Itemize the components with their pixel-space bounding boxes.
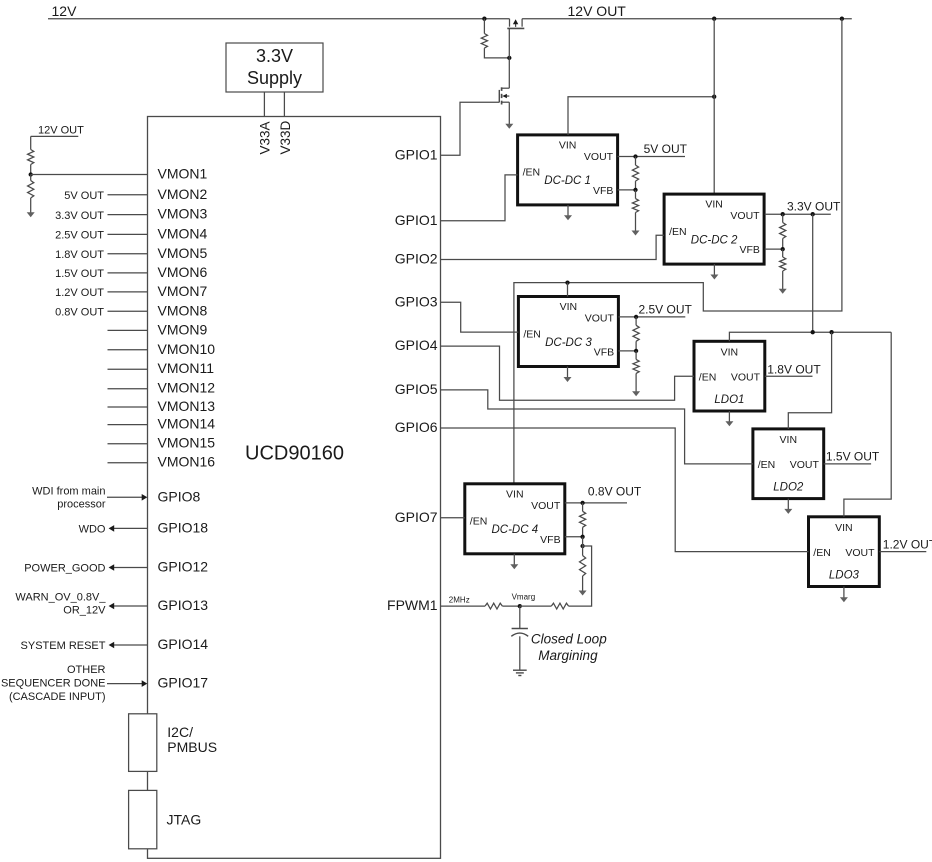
transistor Q1 P-FET high-side	[507, 19, 524, 58]
ground arrow DC-DC1	[564, 205, 572, 220]
node DC-DC4 margin tap	[580, 544, 584, 548]
pin label VMON2	[158, 186, 208, 202]
wire 3.3V down to LDO rail	[812, 214, 814, 332]
svg-text:1.5V OUT: 1.5V OUT	[826, 449, 880, 463]
net label 2MHz	[449, 595, 470, 604]
svg-text:VOUT: VOUT	[584, 151, 614, 163]
svg-text:LDO2: LDO2	[773, 482, 804, 494]
net label WARN_OV_0.8V_ OR_12V	[15, 591, 106, 616]
wire pin GPIO18 output arrow	[109, 525, 148, 532]
svg-text:GPIO14: GPIO14	[158, 636, 209, 652]
svg-text:/EN: /EN	[758, 459, 776, 471]
resistor R2 12V divider top	[28, 136, 34, 164]
wire LDO3 VIN feed	[844, 332, 891, 517]
net label 2.5V OUT (VMON4)	[55, 230, 104, 242]
svg-text:DC-DC 4: DC-DC 4	[491, 524, 538, 536]
connector I2C/PMBUS	[129, 714, 217, 772]
ground arrow DC-DC1 FB	[632, 213, 640, 236]
wire DC-DC3 VOUT	[618, 316, 685, 318]
pin label GPIO8	[158, 488, 201, 504]
wire LDO1 /EN to GPIO4	[441, 346, 695, 400]
transistor Q2 N-FET	[499, 58, 509, 105]
svg-text:SYSTEM RESET: SYSTEM RESET	[21, 640, 106, 652]
pin label VMON9	[158, 321, 208, 337]
node DC-DC1 VFB	[633, 188, 637, 192]
wire LDO rail	[729, 332, 891, 341]
wire pin VMON8	[108, 310, 148, 312]
wire V33A	[263, 92, 265, 117]
resistor R9 DC-DC3 FB bottom	[633, 351, 639, 374]
svg-text:VMON14: VMON14	[158, 416, 216, 432]
svg-text:GPIO12: GPIO12	[158, 559, 209, 575]
svg-text:1.5V OUT: 1.5V OUT	[55, 268, 104, 280]
op-amp U7 LDO2 regulator	[753, 429, 824, 499]
svg-text:Supply: Supply	[247, 68, 302, 88]
wire pin VMON4	[108, 233, 148, 235]
resistor R13 margining feedback	[551, 603, 568, 609]
svg-text:WDO: WDO	[79, 523, 106, 535]
wire DC-DC4 /EN to GPIO7	[441, 517, 465, 519]
svg-text:/EN: /EN	[470, 516, 488, 528]
svg-text:VFB: VFB	[593, 185, 613, 197]
svg-text:VMON10: VMON10	[158, 341, 216, 357]
pin label GPIO18	[158, 519, 209, 535]
wire to Vmarg	[502, 605, 519, 607]
pin label GPIO2 (right row 3)	[395, 251, 438, 267]
svg-text:OTHER: OTHER	[67, 664, 106, 676]
svg-text:GPIO7: GPIO7	[395, 509, 438, 525]
svg-text:2.5V OUT: 2.5V OUT	[639, 302, 693, 316]
pin label GPIO12	[158, 559, 209, 575]
net label 1.8V OUT (VMON5)	[55, 249, 104, 261]
net label 1.2V OUT (VMON7)	[55, 287, 104, 299]
pin label FPWM1 (right row 9)	[387, 597, 438, 613]
wire DC-DC1 VIN riser	[568, 97, 714, 135]
svg-text:VMON8: VMON8	[158, 302, 208, 318]
wire pin GPIO13 output arrow	[109, 603, 148, 610]
svg-text:VOUT: VOUT	[845, 547, 875, 559]
pin label VMON12	[158, 380, 216, 396]
wire V33D	[283, 92, 285, 117]
pin label GPIO7 (right row 8)	[395, 509, 438, 525]
wire DC-DC2 VOUT	[765, 213, 831, 215]
node on 12V rail feed DC-DC3/4	[840, 17, 844, 21]
svg-text:VMON4: VMON4	[158, 225, 208, 241]
wire DC-DC1 /EN to GPIO1	[441, 175, 518, 221]
pin label VMON15	[158, 435, 216, 451]
svg-text:JTAG: JTAG	[167, 812, 202, 828]
svg-text:VMON15: VMON15	[158, 435, 216, 451]
resistor R12 margining series	[485, 603, 502, 609]
svg-text:12V OUT: 12V OUT	[38, 124, 84, 136]
pin label VMON7	[158, 283, 208, 299]
svg-text:DC-DC 2: DC-DC 2	[691, 234, 738, 246]
pin label GPIO1 (right row 2)	[395, 212, 438, 228]
svg-text:1.2V OUT: 1.2V OUT	[883, 538, 932, 552]
svg-text:GPIO1: GPIO1	[395, 146, 438, 162]
svg-text:WDI from main: WDI from main	[32, 486, 105, 498]
svg-text:PMBUS: PMBUS	[167, 739, 217, 755]
wire pin VMON12	[108, 388, 148, 390]
pin label VMON14	[158, 416, 216, 432]
svg-text:1.2V OUT: 1.2V OUT	[55, 287, 104, 299]
svg-text:Vmarg: Vmarg	[512, 593, 536, 602]
svg-text:/EN: /EN	[523, 167, 541, 179]
wire pin VMON16	[108, 462, 148, 464]
pin label GPIO17	[158, 675, 209, 691]
pin label GPIO4 (right row 5)	[395, 337, 438, 353]
svg-text:0.8V OUT: 0.8V OUT	[588, 485, 642, 499]
svg-text:3.3V: 3.3V	[256, 46, 293, 66]
svg-text:V33D: V33D	[278, 120, 293, 154]
svg-text:DC-DC 3: DC-DC 3	[545, 337, 592, 349]
wire LDO2 VIN feed	[788, 332, 831, 429]
svg-text:0.8V OUT: 0.8V OUT	[55, 307, 104, 319]
svg-text:VIN: VIN	[506, 488, 524, 500]
wire pin VMON7	[108, 291, 148, 293]
net label 2.5V OUT	[639, 302, 693, 316]
svg-text:VOUT: VOUT	[585, 313, 615, 325]
wire pin VMON15	[108, 443, 148, 445]
wire pin GPIO12 output arrow	[109, 564, 148, 571]
pin label VMON6	[158, 264, 208, 280]
wire DC-DC3 VFB	[618, 350, 636, 352]
wire DC-DC4 VOUT	[565, 502, 627, 504]
svg-text:GPIO8: GPIO8	[158, 488, 201, 504]
ground below Q2	[505, 102, 513, 129]
net label OTHER SEQUENCER DONE (CASCADE INPUT)	[1, 664, 106, 703]
svg-text:POWER_GOOD: POWER_GOOD	[24, 563, 105, 575]
resistor R3 12V divider bottom	[28, 175, 34, 199]
wire Q2 gate to GPIO1	[441, 102, 500, 155]
pin label VMON4	[158, 225, 208, 241]
ground arrow DC-DC4	[510, 554, 518, 570]
pin label GPIO6 (right row 7)	[395, 419, 438, 435]
wire pin VMON9	[108, 329, 148, 331]
wire pin VMON6	[108, 272, 148, 274]
node DC-DC4 VFB	[580, 535, 584, 539]
svg-text:VFB: VFB	[540, 534, 560, 546]
svg-text:VMON7: VMON7	[158, 283, 208, 299]
resistor R11 DC-DC4 FB bottom	[580, 537, 586, 576]
ground arrow LDO3	[840, 587, 848, 603]
pin label VMON16	[158, 454, 216, 470]
svg-text:VMON6: VMON6	[158, 264, 208, 280]
pin label GPIO5 (right row 6)	[395, 381, 438, 397]
node DC-DC3 VFB	[634, 349, 638, 353]
svg-text:UCD90160: UCD90160	[245, 443, 344, 465]
svg-text:12V: 12V	[52, 3, 78, 19]
pin label GPIO3 (right row 4)	[395, 293, 438, 309]
svg-text:VMON2: VMON2	[158, 186, 208, 202]
net label WDO	[79, 523, 106, 535]
net label 12V OUT top	[568, 3, 627, 19]
svg-text:1.8V OUT: 1.8V OUT	[767, 362, 821, 376]
svg-text:/EN: /EN	[669, 226, 687, 238]
svg-text:VMON9: VMON9	[158, 321, 208, 337]
pin label VMON11	[158, 360, 215, 376]
annotation Closed Loop Margining	[531, 632, 607, 664]
wire DC-DC2 VFB	[765, 248, 783, 250]
svg-text:VOUT: VOUT	[790, 459, 820, 471]
svg-text:VMON1: VMON1	[158, 166, 208, 182]
net label 0.8V OUT	[588, 485, 642, 499]
svg-text:VMON3: VMON3	[158, 206, 208, 222]
ground arrow DC-DC2 FB	[779, 271, 787, 294]
node on 12V rail at R1	[482, 17, 486, 21]
resistor R7 DC-DC2 FB bottom	[780, 249, 786, 271]
svg-text:VMON16: VMON16	[158, 454, 216, 470]
pin label VMON1	[158, 166, 208, 182]
op-amp U2 DC-DC 1 converter	[518, 135, 618, 205]
wire DC-DC4 VFB	[565, 536, 583, 538]
wire LDO3 /EN to GPIO6	[441, 428, 809, 552]
IC U1 UCD90160 body	[148, 117, 441, 859]
net label 1.5V OUT	[826, 449, 880, 463]
op-amp U5 DC-DC 4 converter	[465, 484, 565, 554]
net label 12V	[52, 3, 78, 19]
net label 1.2V OUT	[883, 538, 932, 552]
wire pin GPIO8 input arrow	[107, 494, 147, 501]
node DC-DC2 VFB	[781, 247, 785, 251]
svg-text:GPIO13: GPIO13	[158, 597, 209, 613]
svg-text:3.3V OUT: 3.3V OUT	[787, 200, 841, 214]
op-amp U6 LDO1 regulator	[694, 341, 765, 411]
ground arrow 12V divider	[27, 198, 35, 217]
wire 12V rail right	[522, 18, 852, 20]
svg-text:VOUT: VOUT	[730, 210, 760, 222]
wire 12V OUT feed route	[514, 19, 842, 484]
svg-text:WARN_OV_0.8V_: WARN_OV_0.8V_	[15, 591, 106, 603]
svg-text:VIN: VIN	[559, 140, 577, 152]
wire LDO3 VOUT	[879, 551, 926, 553]
resistor R1 gate pull-up	[481, 19, 509, 58]
svg-text:2MHz: 2MHz	[449, 595, 470, 604]
net label 5V OUT	[644, 142, 688, 156]
3.3V supply block	[226, 43, 323, 92]
wire 12V drop to DC-DC2 VIN	[713, 19, 715, 194]
resistor R4 DC-DC1 FB top	[632, 157, 638, 190]
resistor R8 DC-DC3 FB top	[633, 317, 639, 351]
pin label V33D	[278, 120, 293, 154]
ground arrow LDO1	[725, 411, 733, 426]
svg-text:GPIO1: GPIO1	[395, 212, 438, 228]
node LDO rail 3.3V in	[811, 330, 815, 334]
wire Vmarg to R13	[520, 605, 552, 607]
wire pin VMON10	[108, 349, 148, 351]
svg-text:5V OUT: 5V OUT	[644, 142, 688, 156]
node 3.3V branch	[811, 212, 815, 216]
net label 12V OUT left	[31, 124, 84, 136]
op-amp U4 DC-DC 3 converter	[518, 297, 618, 367]
ground arrow DC-DC2	[710, 264, 718, 279]
svg-text:GPIO3: GPIO3	[395, 293, 438, 309]
wire pin VMON14	[108, 424, 148, 426]
svg-text:GPIO6: GPIO6	[395, 419, 438, 435]
svg-text:V33A: V33A	[258, 121, 273, 154]
node gate junction	[507, 56, 511, 60]
resistor R10 DC-DC4 FB top	[580, 503, 586, 537]
wire DC-DC3 VIN riser	[567, 283, 569, 297]
node 12V divider tap	[29, 165, 33, 177]
node DC-DC3 VIN tap	[565, 280, 569, 284]
svg-text:FPWM1: FPWM1	[387, 597, 438, 613]
pin label GPIO14	[158, 636, 209, 652]
svg-text:I2C/: I2C/	[167, 724, 193, 740]
node Vmarg	[518, 604, 522, 608]
node on 12V rail feed DC-DC2	[712, 17, 716, 21]
svg-text:5V OUT: 5V OUT	[64, 190, 104, 202]
wire pin VMON3	[108, 214, 148, 216]
wire pin VMON5	[108, 253, 148, 255]
svg-text:LDO1: LDO1	[714, 394, 744, 406]
wire 12V rail left	[48, 18, 510, 20]
svg-text:VIN: VIN	[835, 522, 853, 534]
node DC-DC1 VIN tap on 12V drop	[712, 95, 716, 99]
resistor R6 DC-DC2 FB top	[780, 214, 786, 249]
wire pin GPIO17 input arrow	[107, 680, 147, 687]
svg-text:12V OUT: 12V OUT	[568, 3, 627, 19]
svg-text:VMON12: VMON12	[158, 380, 216, 396]
capacitor C1 margining	[511, 606, 528, 670]
net label 0.8V OUT (VMON8)	[55, 307, 104, 319]
wire FPWM1 out	[441, 605, 486, 607]
net label 5V OUT (VMON2)	[64, 190, 104, 202]
svg-text:processor: processor	[57, 499, 106, 511]
net label 1.5V OUT (VMON6)	[55, 268, 104, 280]
svg-text:VOUT: VOUT	[731, 371, 761, 383]
resistor R5 DC-DC1 FB bottom	[632, 190, 638, 213]
svg-text:VMON5: VMON5	[158, 245, 208, 261]
pin label V33A	[258, 121, 273, 154]
wire LDO1 VOUT	[765, 375, 813, 377]
wire LDO2 VOUT	[824, 463, 871, 465]
wire pin VMON13	[108, 406, 148, 408]
pin label VMON10	[158, 341, 216, 357]
svg-text:(CASCADE INPUT): (CASCADE INPUT)	[9, 691, 106, 703]
svg-text:3.3V OUT: 3.3V OUT	[55, 210, 104, 222]
svg-text:/EN: /EN	[523, 328, 541, 340]
op-amp U3 DC-DC 2 converter	[664, 194, 764, 264]
svg-text:VIN: VIN	[560, 301, 578, 313]
svg-text:VFB: VFB	[594, 347, 614, 359]
svg-text:/EN: /EN	[813, 547, 831, 559]
svg-text:VFB: VFB	[739, 244, 759, 256]
net label POWER_GOOD	[24, 563, 105, 575]
svg-text:GPIO2: GPIO2	[395, 251, 438, 267]
svg-text:DC-DC 1: DC-DC 1	[544, 175, 591, 187]
svg-text:VIN: VIN	[780, 434, 798, 446]
pin label VMON8	[158, 302, 208, 318]
svg-text:SEQUENCER DONE: SEQUENCER DONE	[1, 678, 106, 690]
node DC-DC4 VOUT	[580, 501, 584, 505]
wire tap to VMON1	[31, 174, 148, 176]
wire pin VMON2	[108, 194, 148, 196]
node DC-DC2 VOUT	[781, 212, 785, 216]
node DC-DC1 VOUT	[633, 154, 637, 158]
ground arrow DC-DC3	[564, 367, 572, 383]
ground (earth) below C1	[513, 670, 527, 675]
svg-text:VMON11: VMON11	[158, 360, 215, 376]
wire DC-DC1 VOUT	[618, 156, 685, 158]
wire pin GPIO14 output arrow	[109, 642, 148, 649]
wire R13 to VFB tap	[569, 546, 592, 606]
svg-text:GPIO4: GPIO4	[395, 337, 438, 353]
svg-text:VIN: VIN	[721, 346, 739, 358]
svg-text:1.8V OUT: 1.8V OUT	[55, 249, 104, 261]
svg-text:VMON13: VMON13	[158, 398, 216, 414]
svg-text:LDO3: LDO3	[829, 570, 860, 582]
svg-text:Closed Loop: Closed Loop	[531, 632, 607, 647]
net label 1.8V OUT	[767, 362, 821, 376]
connector JTAG	[129, 790, 202, 848]
wire DC-DC2 /EN to GPIO2	[441, 235, 665, 259]
svg-text:Margining: Margining	[538, 648, 598, 663]
wire DC-DC1 VFB	[618, 189, 636, 191]
pin label VMON13	[158, 398, 216, 414]
svg-text:2.5V OUT: 2.5V OUT	[55, 230, 104, 242]
svg-text:VOUT: VOUT	[531, 500, 561, 512]
ground arrow DC-DC3 FB	[632, 373, 640, 396]
node DC-DC3 VOUT	[634, 315, 638, 319]
net label Vmarg	[512, 593, 536, 602]
svg-text:OR_12V: OR_12V	[63, 604, 106, 616]
wire LDO2 /EN to GPIO5	[441, 390, 753, 464]
svg-text:GPIO17: GPIO17	[158, 675, 209, 691]
svg-text:GPIO5: GPIO5	[395, 381, 438, 397]
net label SYSTEM RESET	[21, 640, 106, 652]
ground arrow DC-DC4 FB	[579, 576, 587, 596]
svg-text:VIN: VIN	[705, 199, 723, 211]
node LDO2 feed tap	[829, 330, 833, 334]
pin label GPIO13	[158, 597, 209, 613]
wire DC-DC3 /EN to GPIO3	[441, 302, 519, 332]
ground arrow LDO2	[784, 499, 792, 514]
net label 3.3V OUT (VMON3)	[55, 210, 104, 222]
net label 3.3V OUT	[787, 200, 841, 214]
svg-text:GPIO18: GPIO18	[158, 519, 209, 535]
net label WDI from main processor	[32, 486, 106, 511]
svg-text:/EN: /EN	[699, 371, 717, 383]
pin label VMON5	[158, 245, 208, 261]
wire pin VMON11	[108, 368, 148, 370]
pin label VMON3	[158, 206, 208, 222]
op-amp U8 LDO3 regulator	[809, 517, 880, 587]
pin label GPIO1 (right row 1)	[395, 146, 438, 162]
